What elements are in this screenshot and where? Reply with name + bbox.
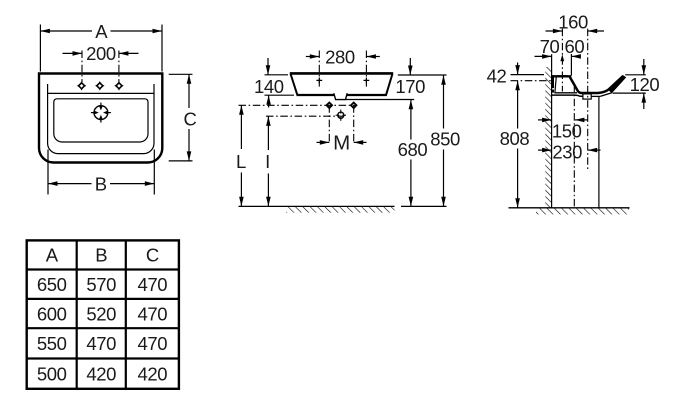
dimension 70/60 line and arrows <box>535 55 552 57</box>
svg-text:280: 280 <box>325 46 355 67</box>
dimension 120 arrows <box>643 59 645 75</box>
svg-text:600: 600 <box>37 303 67 324</box>
wall face line <box>551 54 553 207</box>
dimension 170 top extension <box>398 74 447 76</box>
dimension 170 down arrow <box>409 58 411 75</box>
basin back fixing bar (section) <box>552 75 554 88</box>
svg-text:C: C <box>184 108 197 129</box>
dashed drain axis <box>573 85 575 208</box>
basin inner rim contour <box>48 84 154 154</box>
dimension 140 arrows <box>267 58 269 75</box>
overflow outlet box <box>334 93 347 99</box>
L dimension line <box>240 105 242 149</box>
svg-text:550: 550 <box>37 333 67 354</box>
dimension A extension lines <box>39 25 41 72</box>
tap axis extension <box>570 54 572 76</box>
bowl contour <box>54 99 148 142</box>
column lines <box>76 240 78 388</box>
I dimension line <box>267 116 269 150</box>
svg-text:650: 650 <box>37 274 67 295</box>
680 dimension line <box>410 100 412 140</box>
svg-text:B: B <box>95 245 107 266</box>
table outer border <box>27 240 179 388</box>
dimension C extension lines <box>169 73 193 75</box>
svg-text:470: 470 <box>137 333 167 354</box>
svg-text:A: A <box>95 21 108 42</box>
fixing axis cross tick <box>557 75 567 77</box>
dimension M arrows <box>317 141 330 143</box>
dimension 200 line with arrows <box>63 52 83 54</box>
fixing cross left <box>316 78 322 84</box>
svg-text:70: 70 <box>540 36 560 57</box>
basin top rim <box>290 72 393 75</box>
dimension 230 arrows <box>538 149 552 151</box>
dimension C line with arrows <box>188 74 190 108</box>
basin outer contour <box>39 74 162 163</box>
svg-text:160: 160 <box>558 12 588 33</box>
drain symbol <box>91 103 111 123</box>
dash-dot axis 230 <box>587 29 589 171</box>
dash-dot siphon line 2 <box>266 115 344 117</box>
svg-text:470: 470 <box>86 333 116 354</box>
dimension 140 bottom extension <box>265 94 295 96</box>
floor hatching <box>286 207 395 213</box>
dimension 120 bottom extension <box>613 92 646 94</box>
svg-text:M: M <box>333 132 350 155</box>
dash-dot fixing line 1 <box>239 104 356 106</box>
fixing hole void bottom <box>554 92 577 94</box>
dimension 42 top extension <box>511 74 545 76</box>
svg-text:230: 230 <box>552 142 582 163</box>
deck line <box>48 92 154 94</box>
wall hatching <box>545 67 551 208</box>
svg-text:L: L <box>236 151 246 172</box>
dash-dot axis to right hole <box>118 51 120 83</box>
basin right slant <box>386 74 392 95</box>
850 dimension line <box>443 75 445 128</box>
M axis dash-dot right <box>353 105 355 143</box>
basin back lower block (section) <box>552 90 554 93</box>
deck top <box>552 75 571 77</box>
svg-text:570: 570 <box>86 274 116 295</box>
svg-text:I: I <box>265 151 270 172</box>
dimension B line with arrows <box>48 183 92 185</box>
row lines <box>27 268 179 270</box>
fixing cross right <box>364 78 370 84</box>
svg-text:470: 470 <box>137 274 167 295</box>
dash-dot axis 70 (fixing) <box>561 29 563 92</box>
svg-text:140: 140 <box>254 76 284 97</box>
svg-text:420: 420 <box>137 363 167 384</box>
svg-text:470: 470 <box>137 303 167 324</box>
underside after drain boss <box>591 95 600 97</box>
svg-text:42: 42 <box>487 66 507 87</box>
faucet hole centre <box>95 81 105 91</box>
dash-dot axis right fixing <box>365 51 367 89</box>
dimension A line with arrows <box>40 30 92 32</box>
svg-text:150: 150 <box>552 120 582 141</box>
front vertical line to floor <box>598 97 600 208</box>
basin bottom line <box>297 94 335 96</box>
basin underside line <box>551 95 583 96</box>
svg-text:200: 200 <box>86 43 116 64</box>
diamond marker left <box>327 103 333 109</box>
front rim section (filled) <box>608 76 625 93</box>
dimension 150 arrows <box>538 119 552 121</box>
M axis dash-dot left <box>328 105 330 143</box>
front underside slant <box>600 93 612 97</box>
svg-text:60: 60 <box>565 36 585 57</box>
basin left slant <box>291 74 298 95</box>
faucet hole right <box>114 81 124 91</box>
svg-text:520: 520 <box>86 303 116 324</box>
floor hatching <box>536 208 629 214</box>
svg-text:120: 120 <box>630 74 660 95</box>
siphon symbol <box>336 110 346 121</box>
dimension 160 arrows <box>546 30 563 32</box>
svg-text:B: B <box>95 173 107 194</box>
diamond marker right <box>351 103 357 109</box>
floor line <box>509 207 630 209</box>
dimension 120 top extension <box>625 74 646 76</box>
808 dimension line <box>517 81 519 129</box>
dash-dot wall fixing level <box>511 80 552 82</box>
dimension 42 arrows <box>517 63 519 75</box>
svg-text:170: 170 <box>395 76 425 97</box>
svg-text:A: A <box>46 245 59 266</box>
bowl inner profile <box>570 76 624 93</box>
svg-text:808: 808 <box>500 128 530 149</box>
dash-dot axis to left hole <box>81 51 83 83</box>
dimension 140 top extension <box>265 74 289 76</box>
svg-text:500: 500 <box>37 363 67 384</box>
floor line <box>239 205 395 207</box>
dash-dot axis left fixing <box>318 51 320 89</box>
overflow bottom extension <box>346 99 414 101</box>
svg-text:C: C <box>146 245 159 266</box>
dimension B extension lines <box>47 150 49 195</box>
svg-text:680: 680 <box>398 139 428 160</box>
svg-text:420: 420 <box>86 363 116 384</box>
dimension 280 arrows <box>306 56 320 58</box>
fixing hole void left slant <box>555 78 556 93</box>
faucet hole left <box>77 81 87 91</box>
svg-text:850: 850 <box>430 129 460 150</box>
drain boss opening <box>583 94 591 99</box>
